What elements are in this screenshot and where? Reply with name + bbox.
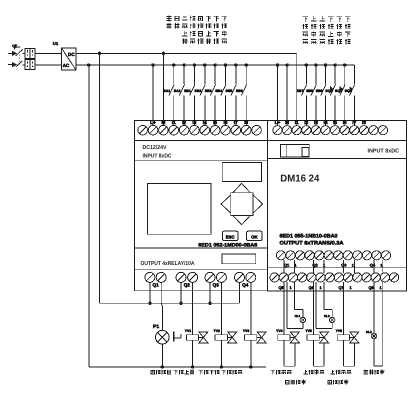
svg-text:INPUT 8xDC: INPUT 8xDC: [143, 153, 172, 159]
indicator lamp HL1: [287, 282, 306, 329]
svg-text:SB8: SB8: [306, 89, 313, 93]
PLC main unit (LOGO!) outline: [135, 120, 268, 290]
svg-text:I5: I5: [213, 120, 217, 126]
svg-text:P1: P1: [153, 324, 159, 330]
wires Q common drops: [149, 282, 151, 303]
svg-text:SA1: SA1: [163, 89, 170, 93]
input label 运行暂停: [198, 16, 204, 43]
switch SB4: [215, 63, 227, 125]
fuse block FU (2x2): [23, 48, 62, 69]
svg-text:YV6: YV6: [336, 329, 343, 333]
svg-text:I1: I1: [295, 120, 299, 126]
svg-text:I2: I2: [182, 120, 186, 126]
left PLC top terminals: [138, 120, 261, 135]
input label 自动: [174, 16, 179, 28]
svg-text:OUTPUT 8xTRANS/0.3A: OUTPUT 8xTRANS/0.3A: [280, 241, 344, 247]
switch SQ3: [345, 65, 355, 126]
AC/DC power supply U1: [53, 41, 76, 70]
input label 手动: [166, 16, 171, 29]
svg-text:YV5: YV5: [305, 329, 312, 333]
svg-text:SB1: SB1: [184, 89, 191, 93]
svg-text:QF: QF: [12, 44, 17, 48]
display screen: [148, 183, 211, 234]
svg-text:SB9: SB9: [316, 89, 323, 93]
svg-text:I5: I5: [333, 120, 337, 126]
lamp P1 with horn (mold alarm): [153, 282, 181, 368]
svg-text:1: 1: [379, 286, 381, 290]
svg-text:Q3: Q3: [341, 262, 347, 267]
switch SQ1: [325, 63, 336, 125]
switch SB6: [236, 63, 248, 125]
svg-text:INPUT 8xDC: INPUT 8xDC: [368, 149, 400, 155]
wire: drop to right module L+ terminal: [276, 63, 279, 66]
svg-text:1: 1: [289, 286, 291, 290]
svg-text:6ED1 055-1NB10-0BA0: 6ED1 055-1NB10-0BA0: [280, 234, 338, 240]
wire: drop to left PLC M terminal: [162, 52, 165, 55]
svg-text:M: M: [161, 120, 165, 126]
output label 下模下降: [199, 370, 220, 375]
svg-text:I7: I7: [352, 120, 356, 126]
solenoid valve YV1: [185, 282, 208, 368]
input label 下模抽气: [221, 16, 227, 43]
node: L+ drop to bottom bus: [87, 63, 90, 66]
expansion connector: [280, 145, 309, 158]
svg-text:OK: OK: [251, 234, 258, 239]
svg-text:Q5: Q5: [278, 286, 283, 290]
svg-text:U1: U1: [53, 41, 59, 46]
row1-row2 connector stubs: [284, 260, 383, 273]
svg-text:Q4: Q4: [370, 262, 376, 267]
svg-text:SB4: SB4: [215, 89, 222, 93]
switch SB2: [195, 63, 207, 125]
svg-text:1: 1: [319, 286, 321, 290]
output label 手动指示: [364, 370, 385, 375]
output label 合模报警: [151, 370, 171, 375]
switch SB3: [205, 63, 217, 125]
svg-text:I4: I4: [203, 120, 207, 126]
solenoid valve YV3: [243, 282, 266, 368]
svg-text:SB5: SB5: [226, 89, 233, 93]
output label 下模吹气: [271, 370, 292, 375]
wire: M corner drop to right I1: [296, 53, 298, 125]
svg-text:Q2: Q2: [184, 283, 191, 288]
output label 下模排气: [222, 370, 243, 375]
svg-text:ESC: ESC: [226, 234, 235, 239]
svg-text:Q1: Q1: [153, 283, 160, 288]
input label 下模吹气: [302, 17, 308, 44]
wire: drop to left PLC L+ terminal: [151, 63, 154, 66]
switch SB8: [306, 63, 317, 125]
node: M drop to relay common: [98, 52, 101, 55]
svg-text:SB6: SB6: [236, 89, 243, 93]
right module output terminals row1: [276, 251, 390, 268]
svg-text:Q3: Q3: [213, 283, 220, 288]
wire: L+ bus: [76, 64, 354, 66]
input label 循环模式: [190, 16, 196, 44]
svg-text:YV1: YV1: [185, 329, 192, 333]
svg-text:SB7: SB7: [297, 89, 304, 93]
svg-text:I6: I6: [343, 120, 347, 126]
indicator lamp HL3 (manual): [366, 282, 383, 366]
svg-text:1: 1: [349, 286, 351, 290]
output label 运行指示: [328, 380, 348, 385]
left PLC output terminals: [145, 272, 256, 287]
input label 下模上位: [328, 17, 334, 45]
svg-text:1: 1: [380, 263, 382, 267]
svg-text:YV2: YV2: [214, 329, 221, 333]
switch SB7: [297, 63, 308, 125]
input label 上模抽气: [311, 16, 317, 44]
svg-text:YV3: YV3: [243, 329, 250, 333]
svg-text:AC: AC: [63, 63, 70, 68]
svg-text:I8: I8: [244, 120, 248, 126]
input label 下模中位: [336, 17, 342, 45]
output label 自动指示: [286, 380, 306, 385]
LCD window: [222, 163, 261, 182]
svg-text:I8: I8: [362, 120, 366, 126]
svg-text:HL1: HL1: [295, 314, 301, 318]
svg-text:DC: DC: [68, 52, 75, 57]
svg-text:DC12/24V: DC12/24V: [143, 144, 167, 151]
svg-text:Q8: Q8: [368, 286, 373, 290]
svg-text:YV4: YV4: [276, 329, 283, 333]
output label 下模上升: [174, 370, 195, 375]
svg-text:DM16 24: DM16 24: [280, 174, 319, 185]
aux window: [222, 254, 256, 264]
ESC button: [222, 231, 238, 240]
bay groove line: [135, 159, 268, 161]
AC mains input arrows: [8, 52, 16, 67]
input label 上模吹气: [319, 16, 325, 44]
svg-text:Q4: Q4: [242, 283, 249, 288]
switch SA1: [163, 63, 175, 125]
svg-text:I7: I7: [234, 120, 238, 126]
solenoid valve YV4: [276, 282, 299, 366]
svg-text:SA2: SA2: [174, 89, 181, 93]
svg-text:L+: L+: [150, 120, 156, 126]
input label 下模下位: [345, 17, 351, 45]
svg-text:M: M: [285, 120, 289, 126]
nav buttons: [221, 183, 263, 224]
svg-text:I3: I3: [192, 120, 196, 126]
relay common bus: [100, 302, 240, 304]
svg-text:HL3: HL3: [366, 330, 372, 334]
svg-text:OUTPUT 4xRELAY/10A: OUTPUT 4xRELAY/10A: [141, 260, 195, 267]
solenoid valve YV2: [214, 282, 237, 368]
external terminal strip: [268, 268, 407, 291]
svg-text:I2: I2: [304, 120, 308, 126]
bottom return bus: [89, 366, 266, 368]
right module top terminals: [273, 120, 388, 135]
svg-text:SB2: SB2: [195, 89, 202, 93]
svg-text:I3: I3: [314, 120, 318, 126]
expansion module DM16 24 outline: [268, 121, 407, 268]
input label 二次上升: [182, 17, 187, 44]
switch SB5: [226, 63, 238, 125]
indicator lamp HL2: [316, 282, 335, 329]
switch SB9: [316, 63, 327, 125]
switch SQ2: [335, 63, 346, 125]
solenoid valve YV6: [336, 282, 359, 366]
solenoid valve YV5: [305, 282, 328, 366]
breaker QF1 two-pole switch: [12, 44, 22, 67]
svg-text:Q7: Q7: [338, 286, 343, 290]
switch SB1: [184, 63, 196, 125]
OK button: [247, 231, 263, 240]
input label 下模上升: [206, 16, 212, 44]
input label 下模下降: [214, 16, 220, 44]
svg-text:HL2: HL2: [324, 314, 330, 318]
svg-text:Q6: Q6: [308, 286, 313, 290]
output label 上模抽气: [303, 370, 324, 375]
svg-text:SB3: SB3: [205, 89, 212, 93]
svg-text:1: 1: [352, 263, 354, 267]
svg-text:I6: I6: [223, 120, 227, 126]
svg-text:I4: I4: [323, 120, 327, 126]
output label 上模吹气: [330, 370, 351, 375]
wire: drop to right module M terminal: [285, 63, 288, 66]
svg-text:Q1: Q1: [284, 262, 290, 267]
svg-text:L+: L+: [275, 120, 281, 126]
svg-text:I1: I1: [172, 120, 176, 126]
switch SA2: [174, 63, 186, 125]
wire: M top wire: [76, 52, 297, 54]
